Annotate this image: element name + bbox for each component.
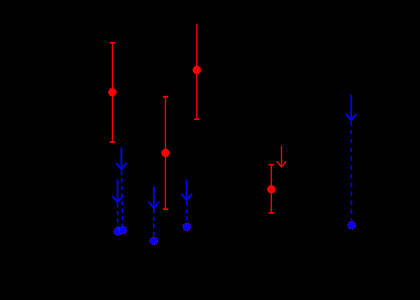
blue marker E xyxy=(348,221,356,229)
blue upper limit B dashed line (x=117.6) xyxy=(117,204,119,228)
blue upper limit B arrow xyxy=(112,179,122,202)
blue marker D xyxy=(183,223,191,231)
blue upper limit C arrow xyxy=(149,186,159,208)
blue upper limit A dashed line (x=121.5) xyxy=(122,171,123,226)
blue marker B (left of overlapping pair) xyxy=(114,228,122,236)
red errorbar point 3 (x=197, clipped at top, no top cap) xyxy=(193,24,201,119)
blue upper limit D arrow xyxy=(182,180,192,201)
blue upper limit E dashed line (x=351) xyxy=(350,121,352,221)
blue upper limit C dashed line (x=153.8) xyxy=(153,209,155,237)
red downward limit arrow (x=281.5) xyxy=(277,146,287,167)
blue marker A (right of overlapping pair, drawn on top) xyxy=(119,226,127,234)
blue upper limit E arrow xyxy=(346,95,356,121)
red errorbar point 1 (x=112) xyxy=(108,43,116,142)
red errorbar point 2 (x=165) xyxy=(161,97,169,210)
blue marker C xyxy=(150,237,158,245)
blue upper limit D dashed line (x=186.8) xyxy=(186,202,188,223)
blue upper limit A arrow xyxy=(116,147,126,169)
red errorbar point 4 (x=271) xyxy=(267,165,275,213)
